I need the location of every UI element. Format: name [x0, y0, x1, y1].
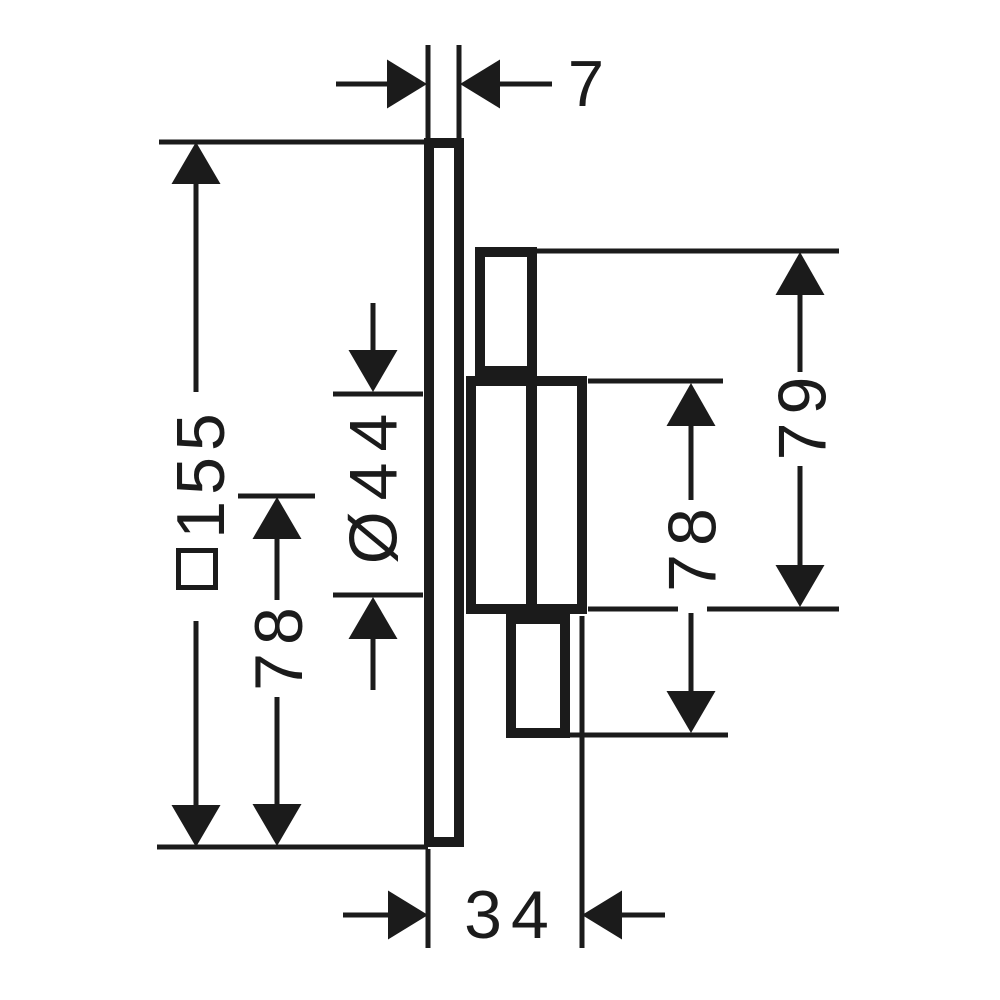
dimension 155: bottom extension line [157, 845, 428, 850]
dimension 78 right: top arrowhead [667, 383, 716, 426]
dimension 78 left: top arrowhead [253, 497, 302, 539]
dimension Ø44: label text [336, 403, 412, 565]
dimension 79: top arrowhead [776, 252, 825, 295]
lower valve block [511, 619, 565, 733]
dimension 34: left extension line [426, 849, 431, 948]
dimension 155: bottom arrowhead [172, 805, 221, 847]
dimension Ø44: lower tick [333, 593, 423, 598]
dimension 7: right arrowhead [460, 60, 500, 109]
dimension 78 right: label text [655, 500, 731, 592]
dimension 34: left arrowhead [388, 891, 428, 940]
dimension Ø44: upper tick [333, 392, 423, 397]
svg-text:Ø44: Ø44 [336, 403, 412, 565]
dimension 78 left: lower shaft [275, 697, 280, 806]
dimension 78 right: bottom arrowhead [667, 691, 716, 733]
wall plate (side view) [429, 143, 459, 842]
dimension 155: top extension line [159, 140, 426, 145]
dimension 79: upper shaft [798, 294, 803, 372]
dimension 155: square symbol [179, 551, 216, 588]
dimension 7: left extension line [426, 45, 431, 140]
dimension 79: bottom extension line left part [588, 607, 678, 612]
svg-text:78: 78 [241, 599, 317, 691]
dimension 78 right: lower shaft [689, 613, 694, 694]
upper valve stop block [480, 252, 532, 371]
dimension 155: top arrowhead [172, 142, 221, 184]
dimension 34: right extension line [580, 616, 585, 948]
dimension 34: right arrowhead [582, 891, 622, 940]
dimension 79: label text [765, 369, 841, 461]
svg-text:79: 79 [765, 369, 841, 461]
dimension 155: upper shaft [194, 183, 199, 392]
dimension 78 right: upper shaft [689, 425, 694, 500]
dimension Ø44: upper shaft [371, 303, 376, 353]
dimension 7: left arrowhead [387, 60, 427, 109]
dimension 78 right: bottom extension line [568, 733, 728, 738]
dimension 7: right extension line [457, 45, 462, 140]
dimension 78 left: label text [241, 599, 317, 691]
dimension 155: lower shaft [194, 621, 199, 806]
upper block edge through valve body [526, 378, 537, 609]
dimension 79: bottom extension line right part [707, 607, 839, 612]
svg-text:78: 78 [655, 500, 731, 592]
dimension Ø44: lower shaft [371, 638, 376, 690]
dimension 79: lower shaft [798, 466, 803, 566]
dimension 7: left shaft [336, 82, 389, 87]
svg-text:34: 34 [464, 877, 558, 953]
dimension Ø44: upper arrowhead [349, 350, 398, 392]
valve body block [471, 381, 582, 609]
dimension 7: right shaft [499, 82, 552, 87]
dimension Ø44: lower arrowhead [349, 597, 398, 639]
dimension 79: bottom arrowhead [776, 565, 825, 607]
svg-text:155: 155 [163, 407, 239, 538]
dimension 79: top extension line [534, 249, 839, 254]
dimension 78 left: upper shaft [275, 538, 280, 600]
dimension 78 left: top tick [238, 494, 315, 499]
dimension 78 right: top extension line [588, 379, 723, 384]
dimension 78 left: bottom arrowhead [253, 804, 302, 846]
svg-text:7: 7 [568, 47, 604, 120]
dimension 155: label text [163, 407, 239, 538]
dimension 34: right shaft [621, 913, 665, 918]
dimension 34: left shaft [343, 913, 390, 918]
